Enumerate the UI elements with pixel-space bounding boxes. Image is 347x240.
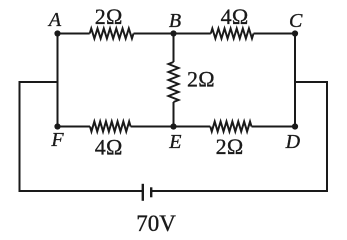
svg-text:2Ω: 2Ω <box>187 67 215 92</box>
svg-text:F: F <box>50 129 64 151</box>
svg-text:D: D <box>285 131 301 153</box>
svg-text:E: E <box>168 131 181 153</box>
svg-text:2Ω: 2Ω <box>216 134 244 159</box>
svg-text:B: B <box>169 10 181 32</box>
svg-text:4Ω: 4Ω <box>221 4 249 29</box>
svg-text:4Ω: 4Ω <box>95 134 123 159</box>
svg-text:70V: 70V <box>136 211 176 236</box>
svg-text:2Ω: 2Ω <box>95 4 123 29</box>
svg-text:C: C <box>289 10 303 32</box>
svg-text:A: A <box>47 9 62 31</box>
